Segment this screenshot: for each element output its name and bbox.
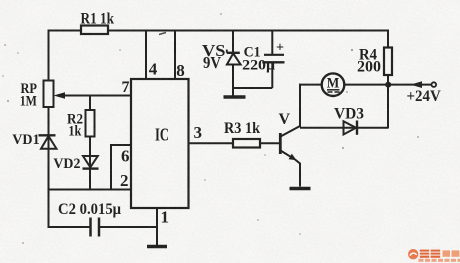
pin 8 label: [176, 61, 185, 80]
wire pin 8: [174, 31, 176, 80]
wire right vertical: [387, 30, 389, 129]
resistor R4: [357, 46, 392, 75]
wire pin 3 to R3: [189, 142, 234, 144]
op-amp U1 : IC box: [131, 79, 189, 208]
wire motor left: [299, 84, 322, 86]
wire C1 bottom to VS: [233, 87, 272, 89]
capacitor C2: [49, 201, 158, 237]
pin 7 label: [122, 79, 130, 96]
pin 6 label: [121, 147, 130, 166]
wire left vertical: [48, 30, 50, 229]
wire top rail: [48, 30, 389, 32]
wire pin 4: [145, 31, 147, 80]
wire +24V lead: [388, 81, 436, 88]
wire VD3 rail: [300, 127, 388, 129]
ground emitter: [290, 187, 311, 191]
capacitor C1: [242, 30, 284, 89]
diode VD2: [53, 156, 98, 172]
wire pins 2 and 6 net: [49, 145, 132, 190]
wire motor right: [344, 84, 388, 86]
resistor R2: [67, 110, 95, 140]
wire pin 1: [156, 208, 158, 246]
ground VS: [224, 95, 246, 99]
wire RP wiper to pin 7: [54, 92, 132, 99]
diode VD1: [12, 132, 56, 149]
wire collector vertical: [299, 84, 301, 128]
resistor R3: [224, 120, 260, 148]
wire R3 to base: [260, 142, 280, 144]
watermark logo: [408, 249, 460, 262]
pin 3 label: [194, 123, 203, 142]
diode VD3: [334, 105, 364, 135]
scan specks: [2, 13, 419, 244]
zener VS: [202, 30, 241, 96]
smudge mark on top wire: [159, 33, 166, 35]
pin 4 label: [149, 60, 158, 79]
node +24V label: [407, 88, 442, 105]
pin 2 label: [120, 171, 129, 190]
wire R2 branch: [89, 96, 91, 190]
ground pin1: [147, 245, 167, 249]
resistor R1: [81, 11, 115, 35]
potentiometer RP: [20, 81, 54, 110]
pin 1 label: [161, 207, 170, 226]
motor M: [322, 73, 345, 96]
junction node: [385, 82, 391, 88]
transistor Q1 : V: [279, 111, 301, 187]
